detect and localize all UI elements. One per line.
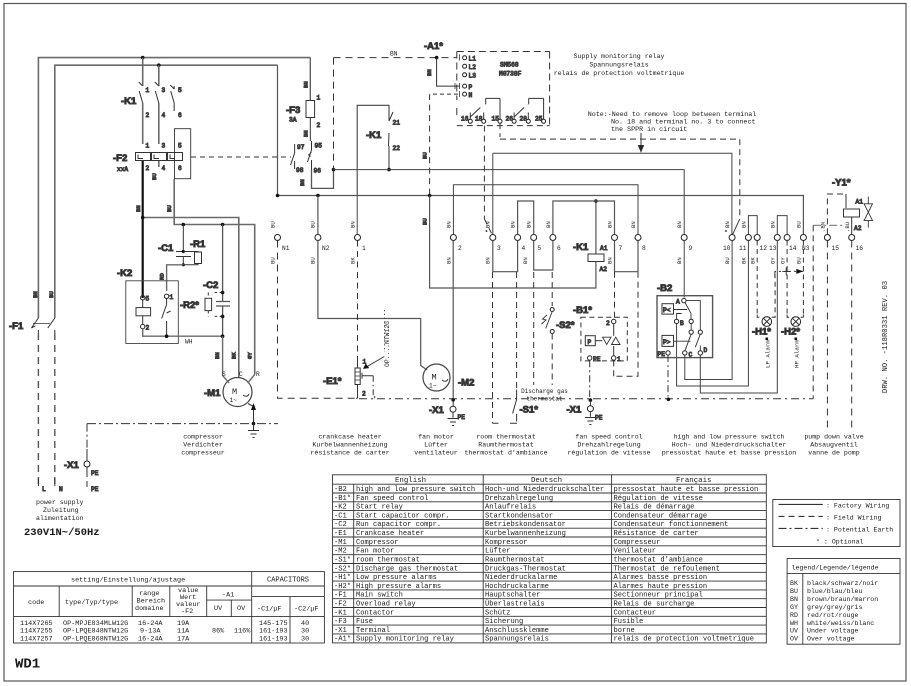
svg-text:-H1*: -H1*: [752, 327, 771, 338]
wire BN main down from F2: [142, 161, 144, 298]
svg-text:BN: BN: [32, 291, 39, 298]
svg-text:English: English: [395, 477, 426, 485]
svg-text:Thermostat de refoulement: Thermostat de refoulement: [614, 565, 720, 573]
settings table: [14, 572, 325, 643]
pump down caption: [804, 434, 863, 457]
supply terminals L N: [38, 478, 54, 486]
wire BN branch to C: [143, 218, 239, 379]
svg-text:30: 30: [301, 635, 309, 643]
svg-text:thermostat d'ambiance: thermostat d'ambiance: [464, 450, 547, 457]
terminal X1 fan PE: [429, 398, 465, 426]
terminal wire colour labels upper: [270, 221, 852, 232]
svg-text:28: 28: [520, 116, 528, 123]
svg-text:PE: PE: [593, 356, 601, 363]
svg-text:Spannungsrelais: Spannungsrelais: [589, 62, 648, 69]
wire neutral bus: [278, 65, 804, 234]
svg-text:BU: BU: [796, 221, 803, 228]
node K1 A1: [594, 199, 598, 203]
svg-text:SM568: SM568: [500, 62, 519, 69]
svg-text:P<: P<: [663, 307, 671, 314]
terminal strip numbers: [282, 245, 863, 252]
svg-text:Compressor: Compressor: [356, 539, 399, 547]
svg-text:BN: BN: [510, 221, 517, 228]
svg-text:-H2*: -H2*: [334, 583, 351, 591]
svg-text:Hoch-und Niederdruckschalter: Hoch-und Niederdruckschalter: [485, 486, 604, 494]
svg-text:High pressure alarms: High pressure alarms: [356, 583, 441, 591]
svg-text:M: M: [232, 387, 237, 397]
svg-text:-F2: -F2: [334, 601, 347, 609]
svg-text:9: 9: [689, 245, 693, 252]
crankcase caption: [310, 434, 389, 457]
svg-text:A2: A2: [600, 266, 608, 273]
svg-text:Français: Français: [676, 477, 711, 485]
svg-text:BN: BN: [770, 221, 777, 228]
svg-text:-C1: -C1: [334, 512, 347, 520]
svg-text:OP-MPJE834MLW12G: OP-MPJE834MLW12G: [63, 620, 128, 628]
svg-text:-M2: -M2: [458, 378, 474, 389]
svg-text:-A1*: -A1*: [424, 41, 443, 52]
node bus N1: [276, 194, 280, 198]
svg-text:16: 16: [856, 245, 864, 252]
svg-text:-B1*: -B1*: [334, 495, 351, 503]
lamp H1 low pressure: [752, 241, 775, 369]
node mark terminal 3: [486, 230, 488, 232]
svg-text:P: P: [588, 339, 592, 346]
svg-text:Fan speed control: Fan speed control: [356, 495, 428, 503]
svg-text:CAPACITORS: CAPACITORS: [267, 577, 309, 585]
svg-text:pump down valve: pump down valve: [804, 434, 863, 441]
svg-text:BN: BN: [724, 221, 731, 228]
svg-text:PE: PE: [458, 414, 466, 421]
svg-text:26: 26: [506, 116, 514, 123]
contactor K1 poles: [139, 58, 182, 144]
svg-text:BN: BN: [485, 257, 492, 264]
wire 2 to fan and X1: [452, 241, 454, 407]
svg-text:N: N: [469, 92, 473, 99]
svg-text:-F1: -F1: [334, 592, 347, 600]
svg-text:Venilateur: Venilateur: [614, 548, 657, 556]
svg-text:-A1: -A1: [222, 592, 234, 600]
svg-text:25: 25: [535, 116, 543, 123]
svg-text:Hochdruckalarme: Hochdruckalarme: [485, 583, 549, 591]
svg-text:domaine: domaine: [135, 605, 164, 613]
translation table rows: [334, 486, 758, 644]
node junction K1 pole2 feed: [157, 63, 161, 67]
wire loop 3-4: [493, 241, 518, 272]
svg-text:C: C: [689, 352, 693, 359]
start relay K2: [126, 281, 179, 344]
svg-text:PE: PE: [91, 470, 99, 477]
svg-text:RD: RD: [159, 273, 166, 280]
svg-text:résistance de carter: résistance de carter: [310, 450, 389, 457]
svg-text:BU: BU: [310, 257, 317, 264]
svg-text:9-13A: 9-13A: [140, 628, 161, 636]
svg-text:17A: 17A: [177, 635, 190, 643]
svg-text:Kurbelwannenheizung: Kurbelwannenheizung: [485, 530, 566, 538]
svg-text:BU: BU: [422, 218, 429, 225]
wire M1 earth with arrow: [248, 403, 256, 430]
svg-text:5: 5: [146, 296, 150, 303]
svg-text:code: code: [28, 599, 44, 607]
svg-text:relais de protection voltmetri: relais de protection voltmetrique: [554, 70, 685, 77]
svg-text:-X1: -X1: [64, 460, 80, 471]
svg-text:Lüfter: Lüfter: [485, 548, 511, 556]
wire loop 13-14 top: [777, 216, 787, 235]
svg-text:1: 1: [146, 143, 150, 150]
svg-text:BN: BN: [303, 130, 310, 137]
main switch F1: [31, 318, 54, 333]
supply monitoring relay A1 box: [457, 52, 550, 126]
wire 13 to B2 D: [700, 241, 777, 394]
svg-text:M: M: [432, 373, 437, 383]
svg-text:A: A: [676, 299, 680, 306]
svg-text:11: 11: [739, 245, 747, 252]
svg-text:BN: BN: [545, 221, 552, 228]
legend wiring box: [773, 500, 900, 547]
svg-text:pressostat haute et basse pres: pressostat haute et basse pression: [614, 486, 759, 494]
svg-text:Niederdruckalarme: Niederdruckalarme: [485, 574, 557, 582]
svg-text:Run capacitor compr.: Run capacitor compr.: [356, 521, 441, 529]
svg-text:BU: BU: [166, 205, 173, 212]
wire loop 5-6: [534, 241, 553, 271]
svg-text:-C2: -C2: [334, 521, 347, 529]
compressor caption: [181, 434, 225, 457]
resistor R1: [183, 239, 206, 265]
svg-text:L: L: [42, 486, 46, 493]
svg-text:GY: GY: [790, 604, 798, 611]
svg-text:: Potential Earth: : Potential Earth: [826, 527, 893, 534]
wire N terminal dashed to bus: [422, 94, 459, 195]
ground M1: [248, 431, 259, 438]
svg-text:OP-LPQE848NTW12G: OP-LPQE848NTW12G: [63, 628, 128, 636]
svg-text:97: 97: [297, 144, 305, 151]
relay contacts 26 28 25: [506, 98, 546, 123]
svg-text:161-193: 161-193: [259, 635, 288, 643]
svg-text:Contactor: Contactor: [356, 609, 394, 617]
wire 18 to 3 dashed: [484, 126, 492, 234]
svg-text:R: R: [256, 371, 260, 378]
svg-text:GY: GY: [770, 257, 777, 264]
svg-text:-K1: -K1: [334, 609, 347, 617]
svg-text:3: 3: [162, 143, 166, 150]
svg-text:room thermostat: room thermostat: [356, 557, 420, 565]
svg-text:11A: 11A: [177, 628, 190, 636]
svg-text:-Y1*: -Y1*: [832, 178, 851, 189]
svg-text:6: 6: [178, 112, 182, 119]
svg-text:BU: BU: [310, 221, 317, 228]
svg-text:power supply: power supply: [36, 499, 84, 506]
svg-text:N1: N1: [282, 245, 290, 252]
svg-text:Spannungsrelais: Spannungsrelais: [485, 636, 549, 644]
node junction K1 pole1 feed: [141, 56, 145, 60]
svg-text:40: 40: [301, 620, 309, 628]
svg-text:.BN: .BN: [820, 222, 827, 232]
svg-text:1: 1: [170, 294, 174, 301]
svg-text:BN: BN: [299, 179, 306, 186]
wire loop 11-12 top: [748, 216, 757, 235]
svg-text:HP Alarm: HP Alarm: [794, 340, 801, 368]
svg-text:BN: BN: [214, 352, 221, 359]
svg-text:UV: UV: [214, 605, 223, 613]
svg-text:Contacteur: Contacteur: [614, 609, 657, 617]
terminal strip circles: [275, 235, 855, 241]
svg-text:Relais de démarrage: Relais de démarrage: [614, 504, 695, 512]
svg-text:MG738F: MG738F: [499, 71, 522, 78]
wire 11 to B2 B: [677, 241, 749, 387]
svg-text:BN: BN: [135, 205, 142, 212]
svg-text:15: 15: [492, 116, 500, 123]
svg-text:BU: BU: [422, 152, 429, 159]
svg-text:: Factory Wiring: : Factory Wiring: [826, 503, 889, 510]
svg-text:3: 3: [497, 245, 501, 252]
svg-text:4: 4: [162, 165, 166, 172]
svg-text:1~: 1~: [230, 397, 238, 404]
svg-text:thermostat d'ambiance: thermostat d'ambiance: [614, 557, 703, 565]
wire L phase top: [38, 58, 310, 318]
svg-text:7: 7: [619, 245, 623, 252]
svg-text:LP Alarm: LP Alarm: [765, 340, 772, 368]
svg-text:Start capacitor compr.: Start capacitor compr.: [356, 512, 450, 520]
svg-text:1: 1: [146, 87, 150, 94]
svg-text:the SPPR in circuit: the SPPR in circuit: [611, 126, 687, 134]
svg-text:borne: borne: [614, 627, 635, 635]
valve Y1: [813, 178, 872, 399]
wire loop 7-8: [615, 241, 639, 272]
svg-text:setting/Einstellung/ajustage: setting/Einstellung/ajustage: [71, 577, 185, 585]
OP NTW12G option note: [363, 310, 391, 369]
svg-text:-M1: -M1: [204, 388, 221, 399]
svg-text:Alarmes basse pression: Alarmes basse pression: [614, 574, 708, 582]
wire N2 drop: [317, 196, 319, 235]
node bus K1A2: [428, 194, 432, 198]
svg-text:Absaugventil: Absaugventil: [810, 442, 858, 449]
svg-text:BN: BN: [426, 69, 433, 76]
svg-text:type/Typ/type: type/Typ/type: [65, 599, 118, 607]
svg-text:-K1: -K1: [366, 130, 382, 141]
svg-text:-R2*: -R2*: [180, 300, 199, 311]
svg-text:Zuleitung: Zuleitung: [43, 507, 79, 514]
svg-text:A1: A1: [600, 245, 608, 252]
svg-text:2: 2: [146, 325, 150, 332]
svg-text:Condensateur démarrage: Condensateur démarrage: [614, 512, 708, 520]
terminal X1 PE power: [64, 424, 99, 493]
svg-text:OP-LPQE868NTW12G: OP-LPQE868NTW12G: [63, 635, 128, 643]
svg-text:145-175: 145-175: [259, 620, 288, 628]
wire 9 to B2 A: [683, 241, 685, 298]
svg-text:fan motor: fan motor: [418, 434, 454, 441]
wire 1 dashed to E1: [357, 241, 359, 360]
svg-text:OV: OV: [790, 635, 798, 642]
wire N2 to fan: [318, 241, 427, 371]
svg-text:grey/grey/gris: grey/grey/gris: [807, 604, 862, 611]
svg-text:régulation de vitesse: régulation de vitesse: [567, 450, 650, 457]
svg-text:-B2: -B2: [657, 283, 672, 294]
svg-text:-S1*: -S1*: [334, 557, 351, 565]
svg-text:2: 2: [362, 391, 366, 398]
svg-text:-B2: -B2: [334, 486, 347, 494]
svg-text:.BU: .BU: [844, 222, 851, 232]
svg-text:Raumthermostat: Raumthermostat: [485, 557, 545, 565]
svg-text:-X1: -X1: [429, 405, 445, 416]
svg-text:16-24A: 16-24A: [138, 635, 163, 643]
svg-text:L1: L1: [469, 56, 477, 63]
svg-text:230V1N~/50Hz: 230V1N~/50Hz: [24, 527, 100, 539]
svg-text:-E1: -E1: [334, 530, 347, 538]
svg-text:Anschlussklemme: Anschlussklemme: [485, 627, 549, 635]
svg-text:compressor: compressor: [183, 434, 223, 441]
svg-text:-K1: -K1: [573, 242, 589, 253]
wire A1 dashed field top: [334, 57, 457, 59]
svg-text:Sectionneur principal: Sectionneur principal: [614, 592, 703, 600]
svg-text:2: 2: [317, 122, 321, 129]
power supply text: [36, 499, 84, 522]
wire line 184 terminal 2 to 8: [453, 185, 638, 235]
svg-text:Over voltage: Over voltage: [807, 635, 855, 642]
svg-text:thermostat: thermostat: [526, 396, 562, 403]
svg-text:-F3: -F3: [334, 618, 347, 626]
svg-text:Condensateur fonctionnement: Condensateur fonctionnement: [614, 521, 729, 529]
wire K1 A2 return: [430, 196, 596, 289]
svg-text:BK: BK: [350, 257, 357, 264]
wire RD to K2: [167, 265, 184, 291]
room thermostat caption: [464, 434, 547, 457]
svg-text:30: 30: [301, 628, 309, 636]
svg-text:Hoch- und Niederdruckschalter: Hoch- und Niederdruckschalter: [672, 442, 787, 449]
svg-text:ventilateur: ventilateur: [414, 450, 458, 457]
svg-text:WH: WH: [185, 339, 193, 346]
svg-text:-K2: -K2: [117, 268, 132, 279]
supply monitoring relay caption: [554, 53, 685, 77]
svg-text:BN: BN: [390, 51, 398, 58]
wire loop 4-5 top: [518, 201, 534, 234]
svg-text:OP....NTW12G: OP....NTW12G: [384, 321, 391, 367]
svg-text:22: 22: [393, 145, 401, 152]
wire line 169 to terminal 9: [334, 170, 685, 235]
svg-text:* : Optional: * : Optional: [816, 539, 864, 546]
svg-text:BK: BK: [790, 580, 798, 587]
pressure switch B2: [657, 283, 713, 359]
wire 96 loop to node: [312, 169, 334, 188]
fan speed caption: [567, 434, 650, 457]
wire L dashed to supply: [37, 333, 39, 484]
svg-text:BU: BU: [151, 173, 158, 180]
terminal X1 B1 PE: [567, 360, 603, 424]
svg-text:1~: 1~: [429, 383, 437, 390]
svg-text:-E1*: -E1*: [323, 376, 342, 387]
svg-text:114X7265: 114X7265: [20, 620, 53, 628]
svg-text:BN: BN: [485, 221, 492, 228]
svg-text:-H2*: -H2*: [781, 327, 800, 338]
svg-text:2: 2: [606, 320, 610, 327]
svg-text:1: 1: [317, 95, 321, 102]
wire N phase top: [55, 65, 278, 318]
wire N dashed to supply: [54, 333, 56, 484]
svg-text:-X1: -X1: [567, 405, 583, 416]
wire WH bottom: [143, 329, 223, 336]
capacitor C2: [203, 225, 230, 339]
svg-text:BN: BN: [741, 221, 748, 228]
wire line 153 to terminal 10: [493, 153, 732, 234]
svg-text:5: 5: [178, 87, 182, 94]
svg-text:96: 96: [314, 168, 322, 175]
capacitor C1: [158, 225, 191, 267]
svg-text:13: 13: [769, 245, 777, 252]
wire earth marks to N3: [775, 267, 804, 277]
svg-text:BN: BN: [526, 221, 533, 228]
svg-text:blue/blau/bleu: blue/blau/bleu: [807, 588, 862, 595]
svg-text:BU: BU: [270, 221, 277, 228]
node BN branch: [141, 216, 145, 220]
svg-text:high and low pressure switch: high and low pressure switch: [674, 434, 785, 441]
svg-text:B: B: [680, 320, 684, 327]
svg-text:116%: 116%: [234, 628, 251, 636]
svg-text:-S2*: -S2*: [334, 565, 351, 573]
svg-text:Crankcase heater: Crankcase heater: [356, 530, 424, 538]
node A1 BN junction: [435, 56, 439, 60]
svg-text:Low pressure alarms: Low pressure alarms: [356, 574, 437, 582]
svg-text:Drehzahlregelung: Drehzahlregelung: [485, 495, 553, 503]
wire 1 drop: [356, 196, 358, 235]
svg-text:Sicherung: Sicherung: [485, 618, 523, 626]
svg-text:BU: BU: [796, 257, 803, 264]
svg-text:A1: A1: [856, 199, 864, 206]
svg-text:UV: UV: [790, 628, 798, 635]
svg-text:Betriebskondensator: Betriebskondensator: [485, 521, 566, 529]
svg-text:BK: BK: [741, 257, 748, 264]
svg-text:114X7255: 114X7255: [20, 628, 53, 636]
svg-text:-K2: -K2: [334, 504, 347, 512]
svg-text:PE: PE: [91, 486, 99, 493]
svg-text:Régulation de vitesse: Régulation de vitesse: [614, 495, 703, 503]
svg-text:-F2: -F2: [113, 153, 127, 164]
svg-text:-S2*: -S2*: [556, 320, 575, 331]
svg-text:2: 2: [146, 165, 150, 172]
svg-text:Start relay: Start relay: [356, 504, 404, 512]
svg-text:-C1/μF: -C1/μF: [257, 606, 281, 614]
svg-text:BN: BN: [607, 221, 614, 228]
svg-text:S: S: [222, 371, 226, 378]
relay contacts 16 18 15: [461, 98, 502, 123]
svg-text:6: 6: [178, 165, 182, 172]
svg-text:Startkondensator: Startkondensator: [485, 512, 553, 520]
svg-text:N2: N2: [322, 245, 330, 252]
room thermostat S1 dashed drops: [493, 272, 539, 423]
wire PE dashed main row: [356, 396, 813, 399]
node C1 feed: [182, 223, 186, 227]
settings table text: [20, 577, 318, 644]
svg-text:-F3: -F3: [286, 105, 300, 116]
relay K1 coil loop: [357, 105, 400, 195]
svg-text:3: 3: [162, 87, 166, 94]
svg-text:BU: BU: [790, 588, 798, 595]
svg-text:19A: 19A: [177, 620, 190, 628]
fan speed control B1: [573, 272, 627, 363]
node C2 top feed: [221, 223, 225, 227]
node bus N2: [316, 194, 320, 198]
svg-text:PE: PE: [658, 351, 666, 358]
svg-text:BU: BU: [48, 291, 55, 298]
svg-text:-R1: -R1: [190, 239, 206, 250]
svg-text:room thermostat: room thermostat: [476, 434, 535, 441]
note arrow: [639, 133, 644, 152]
svg-text:OV: OV: [237, 605, 246, 613]
svg-text:crankcase heater: crankcase heater: [318, 434, 381, 441]
svg-text:-F1: -F1: [9, 321, 24, 332]
svg-text:red/rot/rouge: red/rot/rouge: [807, 612, 858, 619]
svg-text:black/schwarz/noir: black/schwarz/noir: [807, 580, 878, 587]
svg-text:relais de protection voltmetri: relais de protection voltmetrique: [614, 636, 754, 644]
svg-text:10: 10: [723, 245, 731, 252]
